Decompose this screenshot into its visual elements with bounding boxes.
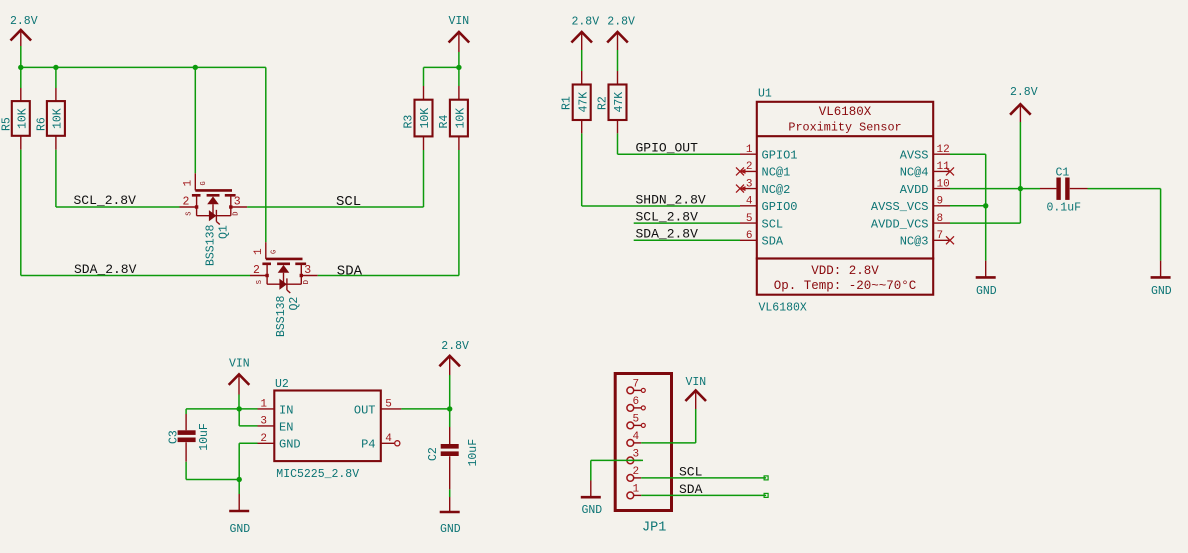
svg-text:9: 9	[937, 196, 944, 208]
U2 pin 4 P4	[361, 433, 400, 452]
svg-text:R4: R4	[438, 115, 451, 129]
resistor R5	[1, 67, 30, 149]
wire GND branch	[239, 443, 257, 479]
capacitor C3	[168, 409, 212, 480]
U1 pin 3 NC@2	[736, 178, 790, 196]
U1 pin 7 NC@3	[900, 230, 954, 248]
junction at rail/R6	[53, 65, 58, 70]
U1 pin 6 SDA	[740, 230, 784, 248]
U1 pin 9 AVSS_VCS	[871, 196, 950, 214]
svg-text:VDD: 2.8V: VDD: 2.8V	[811, 264, 879, 278]
svg-text:SCL: SCL	[336, 194, 361, 210]
svg-text:3: 3	[746, 178, 753, 190]
svg-text:MIC5225_2.8V: MIC5225_2.8V	[276, 468, 359, 481]
U2 pin 3 EN	[258, 416, 294, 435]
svg-text:NC@3: NC@3	[900, 235, 929, 249]
svg-text:6: 6	[746, 230, 753, 242]
svg-text:1: 1	[183, 180, 195, 187]
svg-text:IN: IN	[279, 403, 293, 417]
svg-text:D: D	[303, 280, 311, 284]
svg-text:C3: C3	[168, 430, 181, 444]
svg-text:11: 11	[937, 161, 951, 173]
svg-text:BSS138: BSS138	[204, 224, 217, 266]
svg-text:AVDD_VCS: AVDD_VCS	[871, 217, 929, 231]
U1 pin 10 AVDD	[900, 178, 950, 196]
U2 pin 1 IN	[258, 399, 294, 418]
wire R4 to SDA row	[458, 150, 460, 276]
wire Q1 gate from rail	[194, 67, 196, 173]
svg-text:AVDD: AVDD	[900, 183, 929, 197]
U1 pin 2 NC@1	[736, 161, 790, 179]
svg-text:VIN: VIN	[686, 376, 707, 389]
svg-text:R6: R6	[36, 117, 49, 131]
U1 pin 1 GPIO1	[740, 144, 798, 162]
U2 pin 5 OUT	[354, 399, 402, 418]
junction at rail/R5	[18, 65, 23, 70]
junction at rail/Q1 gate	[193, 65, 198, 70]
U1 pin 11 NC@4	[900, 161, 954, 179]
svg-text:10K: 10K	[52, 108, 65, 129]
svg-text:3: 3	[234, 195, 241, 208]
svg-text:Q1: Q1	[217, 225, 230, 239]
wire SCL_2.8V to U1 pin 5	[634, 222, 740, 224]
wire 2.8V to OUT junction	[449, 375, 451, 409]
svg-text:2.8V: 2.8V	[441, 340, 469, 353]
U1 pin 8 AVDD_VCS	[871, 213, 950, 231]
svg-text:SDA_2.8V: SDA_2.8V	[74, 262, 137, 277]
ground GND (C2)	[440, 489, 461, 535]
svg-text:JP1: JP1	[642, 521, 666, 536]
svg-text:R2: R2	[596, 96, 609, 110]
wire R5 to SDA_2.8V row	[20, 150, 22, 276]
svg-text:SCL: SCL	[762, 217, 784, 231]
junction OUT/2.8V	[447, 406, 452, 411]
U1 pin 5 SCL	[740, 213, 783, 231]
svg-text:AVSS_VCS: AVSS_VCS	[871, 200, 929, 214]
svg-text:2: 2	[746, 161, 753, 173]
svg-text:GND: GND	[976, 285, 997, 298]
svg-text:7: 7	[633, 379, 640, 391]
wire C3 bottom rail	[186, 479, 239, 481]
svg-text:10: 10	[937, 178, 950, 190]
JP1 pin 5	[627, 414, 645, 429]
JP1 pin 6	[627, 396, 645, 411]
svg-text:10K: 10K	[17, 108, 30, 129]
ground GND (AVSS)	[976, 261, 997, 299]
svg-text:C1: C1	[1056, 167, 1070, 180]
svg-text:GND: GND	[440, 523, 461, 536]
wire end square SCL	[764, 476, 768, 480]
ground GND (JP1)	[581, 481, 603, 518]
power 2.8V top-left	[10, 15, 38, 46]
svg-text:NC@2: NC@2	[762, 183, 791, 197]
svg-text:10K: 10K	[455, 108, 468, 129]
svg-text:C2: C2	[427, 447, 440, 461]
svg-text:3: 3	[633, 449, 640, 461]
resistor R2	[596, 50, 626, 133]
capacitor C1	[1040, 167, 1088, 215]
JP1 pin 2	[627, 466, 641, 481]
U1 pin 4 GPIO0	[740, 196, 798, 214]
resistor R1	[561, 50, 591, 133]
svg-text:7: 7	[937, 230, 944, 242]
power 2.8V above R1	[571, 16, 599, 51]
svg-text:VIN: VIN	[449, 15, 470, 28]
svg-text:GND: GND	[1151, 285, 1172, 298]
svg-text:2.8V: 2.8V	[607, 16, 635, 29]
svg-text:Proximity Sensor: Proximity Sensor	[788, 121, 901, 135]
wire VIN rail to R3	[424, 66, 459, 68]
svg-text:P4: P4	[361, 438, 375, 452]
svg-text:12: 12	[937, 144, 950, 156]
wire 2.8V stem to rail	[20, 46, 22, 67]
junction VIN rail	[456, 65, 461, 70]
svg-text:G: G	[200, 181, 208, 185]
svg-text:EN: EN	[279, 420, 293, 434]
svg-text:2: 2	[260, 433, 267, 445]
svg-text:SHDN_2.8V: SHDN_2.8V	[636, 192, 706, 207]
svg-text:1: 1	[253, 248, 265, 255]
ground GND (U2)	[229, 480, 250, 536]
connector JP1 body	[615, 374, 671, 536]
wire end square SDA	[764, 493, 768, 497]
wire JP1 pin2 SCL	[641, 477, 766, 479]
svg-text:SDA: SDA	[337, 263, 363, 279]
svg-text:VIN: VIN	[229, 358, 250, 371]
svg-text:R3: R3	[403, 115, 416, 129]
junction 2.8V/AVDD	[1018, 186, 1023, 191]
power 2.8V at C1	[1010, 86, 1038, 122]
svg-text:1: 1	[746, 144, 753, 156]
wire 2.8V down to AVDD_VCS	[950, 122, 1020, 223]
wire R6 to SCL_2.8V row	[56, 150, 180, 207]
junction AVSS_VCS	[983, 203, 988, 208]
svg-text:4: 4	[385, 433, 392, 445]
svg-text:2: 2	[253, 264, 260, 277]
power VIN at JP1	[685, 376, 706, 409]
svg-text:GPIO1: GPIO1	[762, 148, 798, 162]
power 2.8V at U2 OUT	[439, 340, 469, 375]
svg-text:AVSS: AVSS	[900, 148, 929, 162]
svg-text:NC@1: NC@1	[762, 166, 791, 180]
svg-text:SDA: SDA	[679, 482, 703, 497]
svg-text:10uF: 10uF	[198, 423, 211, 451]
svg-text:2.8V: 2.8V	[10, 15, 38, 28]
svg-text:GPIO0: GPIO0	[762, 200, 798, 214]
svg-text:2: 2	[183, 195, 190, 208]
junction U2 GND rail	[237, 477, 242, 482]
svg-text:2.8V: 2.8V	[1010, 86, 1038, 99]
svg-text:3: 3	[304, 264, 311, 277]
op-amp U1 VL6180X body	[757, 88, 933, 315]
svg-text:VL6180X: VL6180X	[819, 105, 872, 119]
svg-text:GND: GND	[582, 504, 603, 517]
svg-text:GPIO_OUT: GPIO_OUT	[636, 140, 699, 155]
resistor R6	[36, 67, 65, 149]
U1 pin 12 AVSS	[900, 144, 950, 162]
svg-text:NC@4: NC@4	[900, 166, 929, 180]
svg-text:VL6180X: VL6180X	[759, 302, 807, 315]
svg-text:1: 1	[633, 484, 640, 496]
power VIN top	[449, 15, 470, 52]
svg-text:SDA_2.8V: SDA_2.8V	[636, 227, 699, 242]
wire SDA_2.8V to U1 pin 6	[634, 239, 740, 241]
wire VIN stem	[458, 52, 460, 67]
svg-text:R1: R1	[561, 96, 574, 110]
capacitor C2	[427, 409, 480, 490]
wire OUT row	[401, 408, 449, 410]
wire EN branch	[239, 409, 257, 426]
wire SDA_2.8V row	[21, 275, 250, 277]
svg-text:47K: 47K	[577, 92, 590, 113]
svg-text:SCL_2.8V: SCL_2.8V	[74, 193, 137, 208]
svg-text:10K: 10K	[419, 108, 432, 129]
power 2.8V above R2	[607, 16, 635, 51]
svg-text:SCL: SCL	[679, 464, 702, 479]
svg-text:4: 4	[746, 196, 753, 208]
resistor R3	[403, 67, 433, 150]
svg-text:2: 2	[633, 466, 640, 478]
wire R2 to GPIO_OUT	[618, 133, 741, 154]
ground GND (C1)	[1151, 261, 1172, 299]
svg-text:GND: GND	[230, 523, 251, 536]
JP1 pin 7	[627, 379, 645, 394]
svg-text:5: 5	[633, 414, 640, 426]
wire JP1 pin1 SDA	[641, 494, 766, 496]
svg-text:S: S	[185, 211, 193, 215]
svg-text:5: 5	[385, 399, 392, 411]
svg-text:2.8V: 2.8V	[572, 16, 600, 29]
wire AVDD to C1	[950, 188, 1040, 190]
wire JP1 pin4 to VIN	[641, 409, 696, 443]
junction U2 IN	[237, 406, 242, 411]
wire 2.8V rail horizontal	[21, 66, 266, 68]
svg-text:47K: 47K	[613, 92, 626, 113]
svg-text:OUT: OUT	[354, 403, 376, 417]
svg-text:0.1uF: 0.1uF	[1047, 202, 1082, 215]
svg-text:Op. Temp: -20~~70°C: Op. Temp: -20~~70°C	[774, 279, 917, 293]
svg-text:G: G	[270, 250, 278, 254]
wire VIN to IN row	[238, 395, 240, 409]
svg-text:5: 5	[746, 213, 753, 225]
svg-text:D: D	[233, 211, 241, 215]
svg-text:U1: U1	[758, 88, 772, 101]
wire SDA row Q2 drain to R4	[318, 275, 459, 277]
JP1 pin 1	[627, 484, 641, 499]
wire AVSS to GND	[950, 154, 986, 261]
JP1 pin 3	[627, 449, 641, 464]
wire R3 to SCL row	[423, 150, 425, 207]
svg-text:10uF: 10uF	[467, 439, 480, 467]
svg-text:1: 1	[260, 399, 267, 411]
U2 pin 2 GND	[258, 433, 301, 452]
JP1 pin 4	[627, 431, 641, 446]
wire AVSS_VCS join	[950, 205, 986, 207]
wire SCL row Q1 drain to R3	[247, 206, 423, 208]
svg-text:3: 3	[260, 416, 267, 428]
svg-text:SDA: SDA	[762, 235, 784, 249]
svg-text:Q2: Q2	[288, 297, 301, 311]
wire JP1 pin3 to GND	[591, 460, 643, 480]
wire C1 to GND	[1088, 189, 1161, 261]
svg-text:4: 4	[633, 431, 640, 443]
svg-text:GND: GND	[279, 438, 301, 452]
svg-text:BSS138: BSS138	[275, 295, 288, 337]
resistor R4	[438, 67, 468, 150]
transistor Q1 (BSS138)	[180, 173, 248, 266]
power VIN at U2	[229, 358, 250, 395]
svg-text:SCL_2.8V: SCL_2.8V	[636, 209, 699, 224]
wire R1 to SHDN_2.8V	[582, 133, 740, 206]
transistor Q2 (BSS138)	[250, 242, 318, 337]
svg-text:8: 8	[937, 213, 944, 225]
svg-text:R5: R5	[1, 117, 14, 131]
svg-text:S: S	[256, 280, 264, 284]
svg-text:6: 6	[633, 396, 640, 408]
voltage regulator U2 MIC5225 body	[274, 378, 381, 481]
wire IN row	[186, 408, 257, 410]
wire rail down to Q2 gate	[265, 67, 267, 242]
svg-text:U2: U2	[275, 378, 289, 391]
